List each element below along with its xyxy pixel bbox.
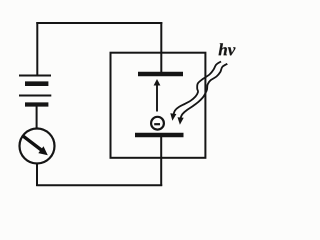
battery B1 lower thin plate (19, 95, 51, 97)
wire left vertical (battery to top-left corner) (36, 22, 38, 75)
wire top horizontal (36, 22, 162, 24)
photon wavy arrow 1 shaft (174, 62, 222, 115)
battery B1 top thick plate (25, 81, 48, 86)
vacuum tube box (111, 53, 206, 158)
electron motion arrow head (154, 79, 161, 86)
electron motion arrow shaft (156, 85, 158, 112)
wire right vertical down to anode plate (160, 22, 162, 73)
photon wavy arrow 1 head (170, 113, 176, 121)
wire battery to galvanometer (36, 107, 38, 130)
anode plate (top) (138, 72, 183, 77)
galvanometer needle head (38, 146, 48, 155)
photon wavy arrow 2 shaft (181, 64, 228, 118)
electron (151, 117, 164, 130)
galvanometer G circle (20, 129, 55, 164)
battery B1 top thin plate (19, 75, 51, 77)
electron minus sign (154, 123, 160, 125)
battery B1 lower thick plate (25, 102, 48, 106)
photon wavy arrow 2 head (178, 117, 184, 125)
galvanometer needle shaft (23, 136, 42, 150)
wire below galvanometer (36, 165, 38, 187)
cathode plate (bottom) (135, 133, 184, 138)
wire cathode lead down through box (160, 137, 162, 186)
wire bottom horizontal (36, 184, 162, 186)
label hν (219, 43, 236, 55)
